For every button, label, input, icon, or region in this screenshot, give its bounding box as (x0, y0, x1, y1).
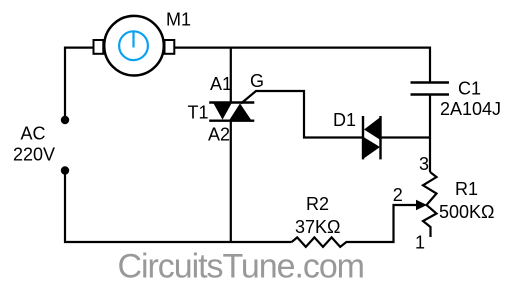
svg-text:R1: R1 (455, 179, 478, 199)
svg-text:220V: 220V (13, 145, 55, 165)
svg-text:T1: T1 (188, 102, 209, 122)
svg-text:1: 1 (415, 233, 425, 253)
svg-text:CircuitsTune.com: CircuitsTune.com (118, 248, 364, 284)
svg-text:500KΩ: 500KΩ (439, 202, 495, 222)
svg-text:AC: AC (21, 124, 46, 144)
svg-text:M1: M1 (166, 10, 191, 30)
svg-text:A2: A2 (208, 125, 230, 145)
svg-text:D1: D1 (333, 110, 356, 130)
svg-text:C1: C1 (458, 79, 481, 99)
svg-text:2: 2 (393, 185, 403, 205)
svg-text:G: G (250, 71, 264, 91)
svg-text:37KΩ: 37KΩ (295, 217, 340, 237)
svg-text:A1: A1 (210, 74, 232, 94)
svg-text:2A104J: 2A104J (440, 99, 501, 119)
svg-text:R2: R2 (306, 194, 329, 214)
svg-text:3: 3 (419, 154, 429, 174)
